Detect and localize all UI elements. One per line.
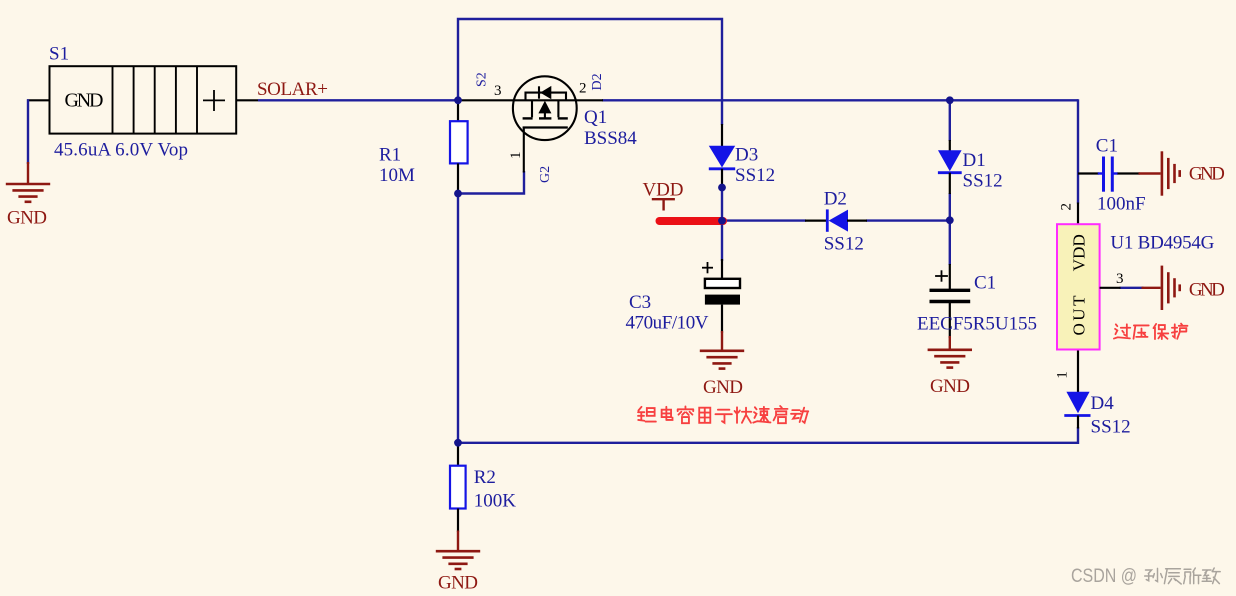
svg-text:SOLAR+: SOLAR+ [257, 79, 328, 100]
svg-text:VDD: VDD [643, 179, 684, 200]
svg-text:CSDN @: CSDN @ [1071, 565, 1137, 587]
op-amp U1 BD4954G body [1057, 203, 1121, 350]
ground lead (pin3) [1142, 287, 1161, 289]
transistor Q1 BSS84 [461, 76, 603, 172]
svg-text:S2: S2 [475, 72, 490, 87]
capacitor C3 [702, 259, 740, 333]
svg-text:SS12: SS12 [963, 170, 1003, 191]
S1 pin stubs [27, 99, 50, 101]
wire VDD node down to C3 [721, 221, 723, 261]
diode D2 [805, 209, 867, 231]
svg-text:BSS84: BSS84 [584, 128, 637, 149]
node bottom rail/R2 [454, 439, 462, 447]
node R1/gate [454, 190, 462, 198]
svg-text:1: 1 [1055, 371, 1071, 379]
wire SOLAR+ [258, 99, 460, 101]
svg-text:SS12: SS12 [824, 234, 864, 255]
svg-text:D2: D2 [824, 188, 847, 209]
capacitor C1 100nF [1078, 157, 1140, 192]
ground lead C3 [721, 331, 723, 351]
svg-text:3: 3 [494, 83, 502, 99]
node VDD bus [718, 217, 726, 225]
svg-text:GND: GND [438, 572, 478, 593]
wire bottom rail [458, 427, 1078, 443]
wire corner down to C1/U1 [1077, 99, 1079, 203]
svg-text:D4: D4 [1091, 393, 1115, 414]
ground symbol (R2) [436, 551, 480, 569]
ground lead R2 [457, 531, 459, 552]
annotation 钽电容用于快速启动 [638, 406, 808, 423]
wire U1 pin3 to gnd [1120, 287, 1144, 289]
wire left vertical [457, 194, 459, 444]
solar cell S1 [50, 66, 237, 133]
ground symbol (pin3) [1162, 266, 1180, 310]
svg-text:45.6uA 6.0V Vop: 45.6uA 6.0V Vop [54, 139, 188, 160]
wire gate of Q1 [458, 171, 524, 194]
ground lead [27, 162, 29, 184]
svg-text:100K: 100K [474, 490, 517, 511]
svg-text:D2: D2 [590, 73, 605, 90]
wire D1 column lower to supercap [949, 193, 951, 265]
svg-text:D1: D1 [963, 150, 986, 171]
wire D1 column upper [949, 100, 951, 141]
resistor R2 [450, 443, 466, 532]
svg-text:GND: GND [930, 376, 970, 397]
svg-text:R2: R2 [474, 467, 496, 488]
net highlight VDD bus [660, 217, 724, 225]
annotation 过压保护 [1114, 324, 1188, 340]
ground symbol (supercap) [928, 350, 972, 368]
svg-text:D3: D3 [735, 145, 758, 166]
svg-text:SS12: SS12 [1091, 416, 1131, 437]
svg-text:470uF/10V: 470uF/10V [626, 313, 709, 334]
diode D4 [1064, 350, 1090, 429]
wire D3 to VDD node [721, 189, 723, 222]
node D3 cathode [718, 184, 726, 192]
svg-text:U1 BD4954G: U1 BD4954G [1110, 233, 1214, 254]
node VDD/supercap [946, 216, 954, 224]
svg-text:2: 2 [579, 81, 587, 97]
svg-text:Q1: Q1 [584, 107, 607, 128]
ground lead (100nF) [1139, 172, 1161, 174]
svg-text:1: 1 [508, 152, 524, 160]
diode D1 [938, 140, 962, 194]
svg-text:SS12: SS12 [735, 165, 775, 186]
svg-text:2: 2 [1059, 203, 1075, 211]
wire S1 to ground [27, 99, 29, 164]
wire main to the right of Q1 [602, 99, 1078, 101]
power port VDD [652, 199, 675, 210]
svg-text:100nF: 100nF [1097, 194, 1146, 215]
svg-text:3: 3 [1116, 271, 1124, 287]
wire top bypass [458, 19, 722, 125]
svg-text:C1: C1 [974, 273, 996, 294]
ground symbol (S1) [6, 184, 50, 202]
svg-text:GND: GND [65, 89, 104, 111]
svg-text:VDD: VDD [1070, 234, 1089, 271]
svg-text:GND: GND [7, 207, 47, 228]
ground symbol (100nF) [1162, 151, 1180, 195]
svg-text:GND: GND [703, 377, 743, 398]
svg-text:GND: GND [1189, 280, 1225, 301]
node SOLAR+/R1 [454, 96, 462, 104]
svg-text:R1: R1 [379, 145, 401, 166]
svg-text:S1: S1 [49, 44, 69, 65]
svg-text:OUT: OUT [1070, 295, 1089, 336]
svg-text:EECF5R5U155: EECF5R5U155 [917, 313, 1037, 334]
ground symbol (C3) [700, 351, 744, 369]
supercap C1 EECF5R5U155 [930, 264, 971, 338]
resistor R1 [450, 100, 468, 193]
diode D3 [709, 124, 735, 190]
node drain/D1 [946, 96, 954, 104]
wire D2 to D1 column [866, 219, 951, 221]
ground lead supercap [949, 336, 951, 350]
svg-text:C1: C1 [1096, 136, 1118, 157]
svg-text:G2: G2 [538, 166, 553, 183]
svg-text:10M: 10M [379, 165, 415, 186]
svg-text:C3: C3 [629, 292, 651, 313]
wire VDD node to D2 [722, 219, 806, 221]
svg-text:GND: GND [1189, 164, 1225, 185]
